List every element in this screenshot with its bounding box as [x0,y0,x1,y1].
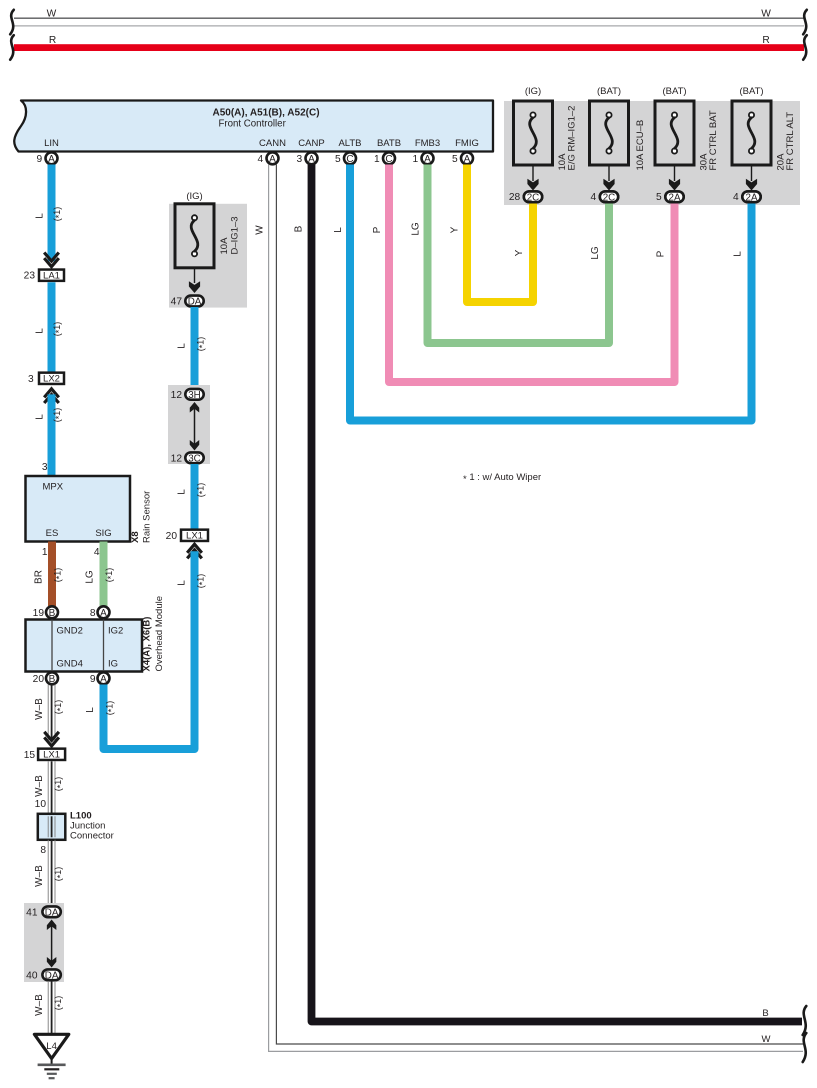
svg-text:1: 1 [42,547,48,558]
svg-text:W–B: W–B [34,775,45,797]
svg-text:W: W [47,8,57,19]
svg-text:LX1: LX1 [43,750,60,761]
module X4(A) X6(B) Overhead Module [26,620,143,672]
break symbol B wire right [803,1006,807,1035]
svg-text:4: 4 [733,192,739,203]
svg-text:12: 12 [171,453,183,464]
wire W-B from DA 40 to ground L4 [47,981,49,1033]
wire L from LX1 down, left, up to overhead module pin 9 [104,551,195,749]
svg-text:15: 15 [24,750,36,761]
connector oval 2C overdraw [524,191,542,202]
pin 1 (C) of front controller at x=389 [383,152,395,164]
connector chevrons into LX1 [44,732,59,741]
fuse 10A D-IG1-3 (IG) gray background [169,204,247,308]
svg-text:DA: DA [45,970,59,981]
svg-text:28: 28 [509,192,521,203]
connector chevrons into LA1 [44,253,59,262]
svg-text:4: 4 [591,192,597,203]
svg-text:MPX: MPX [43,482,64,493]
svg-text:DA: DA [188,297,202,308]
wire L from DA to 3H [191,307,199,389]
svg-text:LA1: LA1 [43,271,60,282]
wire P from BATB pin 1 to fuse FR CTRL BAT connector 2A [389,165,675,383]
connector LA1 pin 23 [39,270,64,281]
break symbol R bus left [10,35,14,60]
pin 5 (A) of front controller at x=467 [461,152,473,164]
svg-text:5: 5 [335,154,341,165]
svg-text:8: 8 [90,608,96,619]
svg-text:D–IG1–3: D–IG1–3 [229,216,240,254]
break symbol W bus left [10,10,14,35]
svg-text:3H: 3H [188,390,201,401]
svg-text:Front Controller: Front Controller [219,118,287,129]
wire L from LIN pin 9 to connector LA1 [48,165,56,262]
inter-connector arrow between DA 41 and DA 40 [51,924,53,963]
svg-text:20: 20 [166,531,178,542]
inter-connector arrow between 3H and 3C [194,407,196,446]
svg-text:SIG: SIG [95,528,111,539]
svg-text:LX1: LX1 [186,531,203,542]
connector 12 (3C) [185,452,203,463]
svg-text:A: A [48,154,55,165]
module A50/A51/A52 Front Controller [14,101,493,152]
connector 4 (2A) [742,191,760,202]
connector LX2 pin 3 [39,373,64,384]
svg-text:(IG): (IG) [525,86,541,97]
svg-text:2C: 2C [527,192,540,203]
junction DA gray background [24,903,64,982]
svg-text:20: 20 [33,674,45,685]
svg-text:A: A [464,154,471,165]
svg-text:CANP: CANP [298,138,324,149]
pin 9 (A) of overhead module [98,672,110,684]
wire L from LA1 to LX2 [48,282,56,372]
pin 5 (C) of front controller at x=350 [344,152,356,164]
svg-text:L: L [177,580,188,586]
svg-text:(BAT): (BAT) [597,86,621,97]
svg-text:B: B [294,225,305,232]
svg-text:10: 10 [35,799,47,810]
wire L from 3C to LX1 [191,464,199,530]
svg-text:IG: IG [108,659,118,670]
svg-text:2C: 2C [603,192,616,203]
wire W-B from LX1 to junction L100 [47,761,49,814]
svg-text:W: W [762,1034,771,1045]
svg-text:E/G RM–IG1–2: E/G RM–IG1–2 [567,106,578,171]
svg-text:Y: Y [450,226,461,233]
break symbol W wire right [803,1033,807,1062]
svg-text:W: W [761,8,771,19]
svg-text:LG: LG [85,570,96,584]
svg-text:ES: ES [46,528,59,539]
connector 4 (2C) [600,191,618,202]
svg-text:L: L [34,328,45,334]
svg-text:FMB3: FMB3 [415,138,440,149]
svg-text:L: L [85,707,96,713]
wire W (CANN) from pin 4 down and right to edge [269,165,803,1052]
svg-text:L: L [177,489,188,495]
pin 1 (A) of front controller at x=427.5 [422,152,434,164]
svg-text:L: L [333,227,344,233]
connector chevrons below LX2 [44,389,59,398]
wire BR from rain sensor ES to overhead module pin 19 [48,542,56,607]
connector 28 (2C) [524,191,542,202]
svg-text:FR CTRL ALT: FR CTRL ALT [785,112,796,171]
pin 9 (A) of front controller at x=51.5 [46,152,58,164]
break symbol R bus right [803,35,807,60]
svg-text:23: 23 [24,271,36,282]
svg-text:W: W [255,225,266,235]
svg-text:LG: LG [411,222,422,236]
svg-text:Y: Y [514,249,525,256]
svg-text:(BAT): (BAT) [739,86,763,97]
svg-text:ALTB: ALTB [338,138,361,149]
svg-text:X8: X8 [130,531,141,543]
svg-text:A50(A), A51(B), A52(C): A50(A), A51(B), A52(C) [212,107,319,118]
svg-text:P: P [656,250,667,257]
svg-text:Rain Sensor: Rain Sensor [142,491,153,543]
svg-text:9: 9 [37,154,43,165]
connector 40 (DA) [42,969,60,980]
svg-text:A: A [424,154,431,165]
connector 5 (2A) [665,191,683,202]
svg-text:3: 3 [28,374,34,385]
pin 19 (B) of overhead module [46,606,58,618]
svg-text:A: A [100,674,107,685]
connector oval 2C overdraw [600,191,618,202]
wire W-B from L100 to connector 41 DA [47,840,49,906]
svg-text:IG2: IG2 [108,626,123,637]
svg-text:3: 3 [42,462,48,473]
module X8 Rain Sensor (MPX) [26,476,131,542]
connector 41 (DA) [42,906,60,917]
ground symbol [51,1059,53,1065]
svg-text:LG: LG [590,246,601,260]
svg-text:L: L [733,251,744,257]
wire Y from FMIG pin 5 to fuse E/G RM-IG1-2 connector 2C [467,165,533,303]
svg-text:X4(A), X6(B): X4(A), X6(B) [142,617,153,672]
svg-text:5: 5 [452,154,458,165]
svg-text:BATB: BATB [377,138,401,149]
svg-text:C: C [346,154,353,165]
connector 47 (DA) [185,296,203,307]
svg-text:2A: 2A [746,192,758,203]
svg-text:L: L [177,343,188,349]
svg-text:A: A [308,154,315,165]
bus wire R (top) [14,44,804,51]
connector LX1 pin 20 [181,530,208,541]
svg-text:2A: 2A [669,192,681,203]
svg-text:47: 47 [171,297,183,308]
svg-text:R: R [49,35,56,46]
svg-text:4: 4 [258,154,264,165]
svg-text:LX2: LX2 [43,374,60,385]
svg-text:W–B: W–B [34,698,45,720]
svg-text:L4: L4 [46,1041,57,1052]
svg-text:41: 41 [26,907,38,918]
ground point L4 [34,1034,68,1058]
svg-text:Overhead Module: Overhead Module [154,596,165,672]
break symbol W bus right [803,10,807,35]
connector oval 2A overdraw [742,191,760,202]
svg-text:(BAT): (BAT) [662,86,686,97]
connector LX1 pin 15 [38,749,65,760]
svg-text:10A ECU–B: 10A ECU–B [635,120,646,171]
svg-text:3: 3 [297,154,303,165]
svg-text:B: B [762,1008,768,1019]
svg-text:(IG): (IG) [186,191,202,202]
svg-text:L: L [34,414,45,420]
svg-text:FMIG: FMIG [455,138,479,149]
svg-text:R: R [762,35,769,46]
wire L from LX2 to rain sensor MPX [48,394,56,475]
pin 4 (A) of front controller at x=272.5 [267,152,279,164]
svg-text:CANN: CANN [259,138,286,149]
svg-text:Connector: Connector [70,831,114,842]
svg-text:GND4: GND4 [57,659,83,670]
wire B (CANP) from pin 3 down and right to edge [312,165,803,1022]
svg-text:DA: DA [45,907,59,918]
svg-text:5: 5 [656,192,662,203]
junction connector L100 [38,814,66,840]
svg-text:3C: 3C [188,453,201,464]
pin 20 (B) of overhead module [46,672,58,684]
svg-text:40: 40 [26,970,38,981]
svg-text:L: L [34,213,45,219]
bus wire W (top) [14,17,804,19]
svg-text:W–B: W–B [34,865,45,887]
svg-text:GND2: GND2 [57,626,83,637]
svg-text:4: 4 [94,547,100,558]
svg-text:C: C [385,154,392,165]
svg-text:B: B [49,608,56,619]
svg-text:LIN: LIN [44,138,59,149]
svg-text:A: A [100,608,107,619]
svg-text:B: B [49,674,56,685]
svg-text:9: 9 [90,674,96,685]
pin 3 (A) of front controller at x=311.5 [306,152,318,164]
svg-text:8: 8 [40,845,46,856]
connector 12 (3H) [185,389,203,400]
svg-text:1: 1 [374,154,380,165]
wire LG from FMB3 pin 1 to fuse ECU-B connector 2C [428,165,610,344]
junction 3H 3C gray background [168,385,210,464]
wire L from ALTB pin 5 to fuse FR CTRL ALT connector 2A [350,165,752,421]
svg-text:19: 19 [33,608,45,619]
svg-text:P: P [372,226,383,233]
wire LG from rain sensor SIG to overhead module pin 8 [100,542,108,607]
svg-text:A: A [269,154,276,165]
svg-text:12: 12 [171,390,183,401]
svg-text:FR CTRL BAT: FR CTRL BAT [708,110,719,170]
svg-text:1: 1 [413,154,419,165]
connector chevrons below LX1 [187,544,202,553]
wire W-B from overhead module pin 20 to LX1 [47,685,49,741]
wire W-B inside L100 [47,816,49,837]
pin 8 (A) of overhead module [98,606,110,618]
svg-text:W–B: W–B [34,994,45,1016]
connector oval 2A overdraw [665,191,683,202]
fuse panel background (gray) [504,101,800,205]
svg-text:BR: BR [34,570,45,584]
